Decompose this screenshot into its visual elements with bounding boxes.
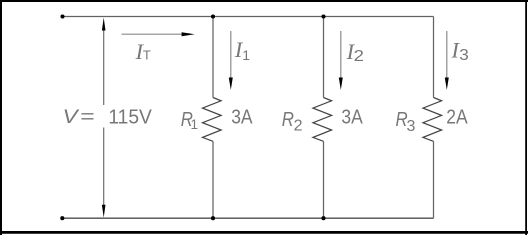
voltage measurement arrow (102, 18, 106, 218)
resistor R2 (313, 98, 332, 142)
wire bottom rail (62, 217, 433, 219)
wire R1 branch bottom (212, 141, 214, 218)
arrow IT (122, 32, 195, 36)
svg-text:3A: 3A (341, 105, 363, 128)
node R1 top (211, 14, 215, 18)
svg-text:1: 1 (191, 117, 199, 132)
svg-text:115V: 115V (108, 105, 152, 128)
label I2 (346, 39, 364, 65)
wire R2 branch bottom (323, 141, 325, 218)
wire R1 branch top (212, 17, 214, 98)
wire R3 branch top (433, 17, 435, 98)
label R3 (396, 108, 416, 135)
resistor R3 (423, 98, 442, 142)
svg-text:3A: 3A (231, 105, 253, 128)
node R2 bottom (321, 216, 325, 220)
svg-text:T: T (143, 48, 151, 63)
node R1 bottom (211, 216, 215, 220)
svg-text:3: 3 (459, 47, 469, 64)
svg-text:2: 2 (294, 118, 303, 135)
svg-text:R: R (282, 108, 294, 131)
arrow I3 (445, 31, 449, 90)
label R2 (282, 108, 303, 135)
svg-text:1: 1 (242, 47, 250, 63)
label V = 115V (63, 105, 153, 128)
svg-text:=: = (80, 107, 95, 128)
label IT (135, 39, 151, 64)
arrow I2 (339, 31, 343, 90)
svg-text:3: 3 (407, 118, 416, 135)
svg-text:2A: 2A (446, 105, 468, 128)
label R1 (181, 108, 198, 132)
node R2 top (321, 14, 325, 18)
label I3 (450, 37, 468, 64)
wire R3 branch bottom (433, 141, 435, 218)
arrow I1 (229, 31, 233, 90)
wire top rail (63, 16, 434, 18)
wire R2 branch top (323, 17, 325, 98)
node top-left terminal (60, 14, 64, 18)
svg-text:2: 2 (354, 48, 364, 65)
label I1 (234, 37, 250, 63)
resistor R1 (203, 98, 222, 142)
node bottom-left terminal (60, 216, 64, 220)
